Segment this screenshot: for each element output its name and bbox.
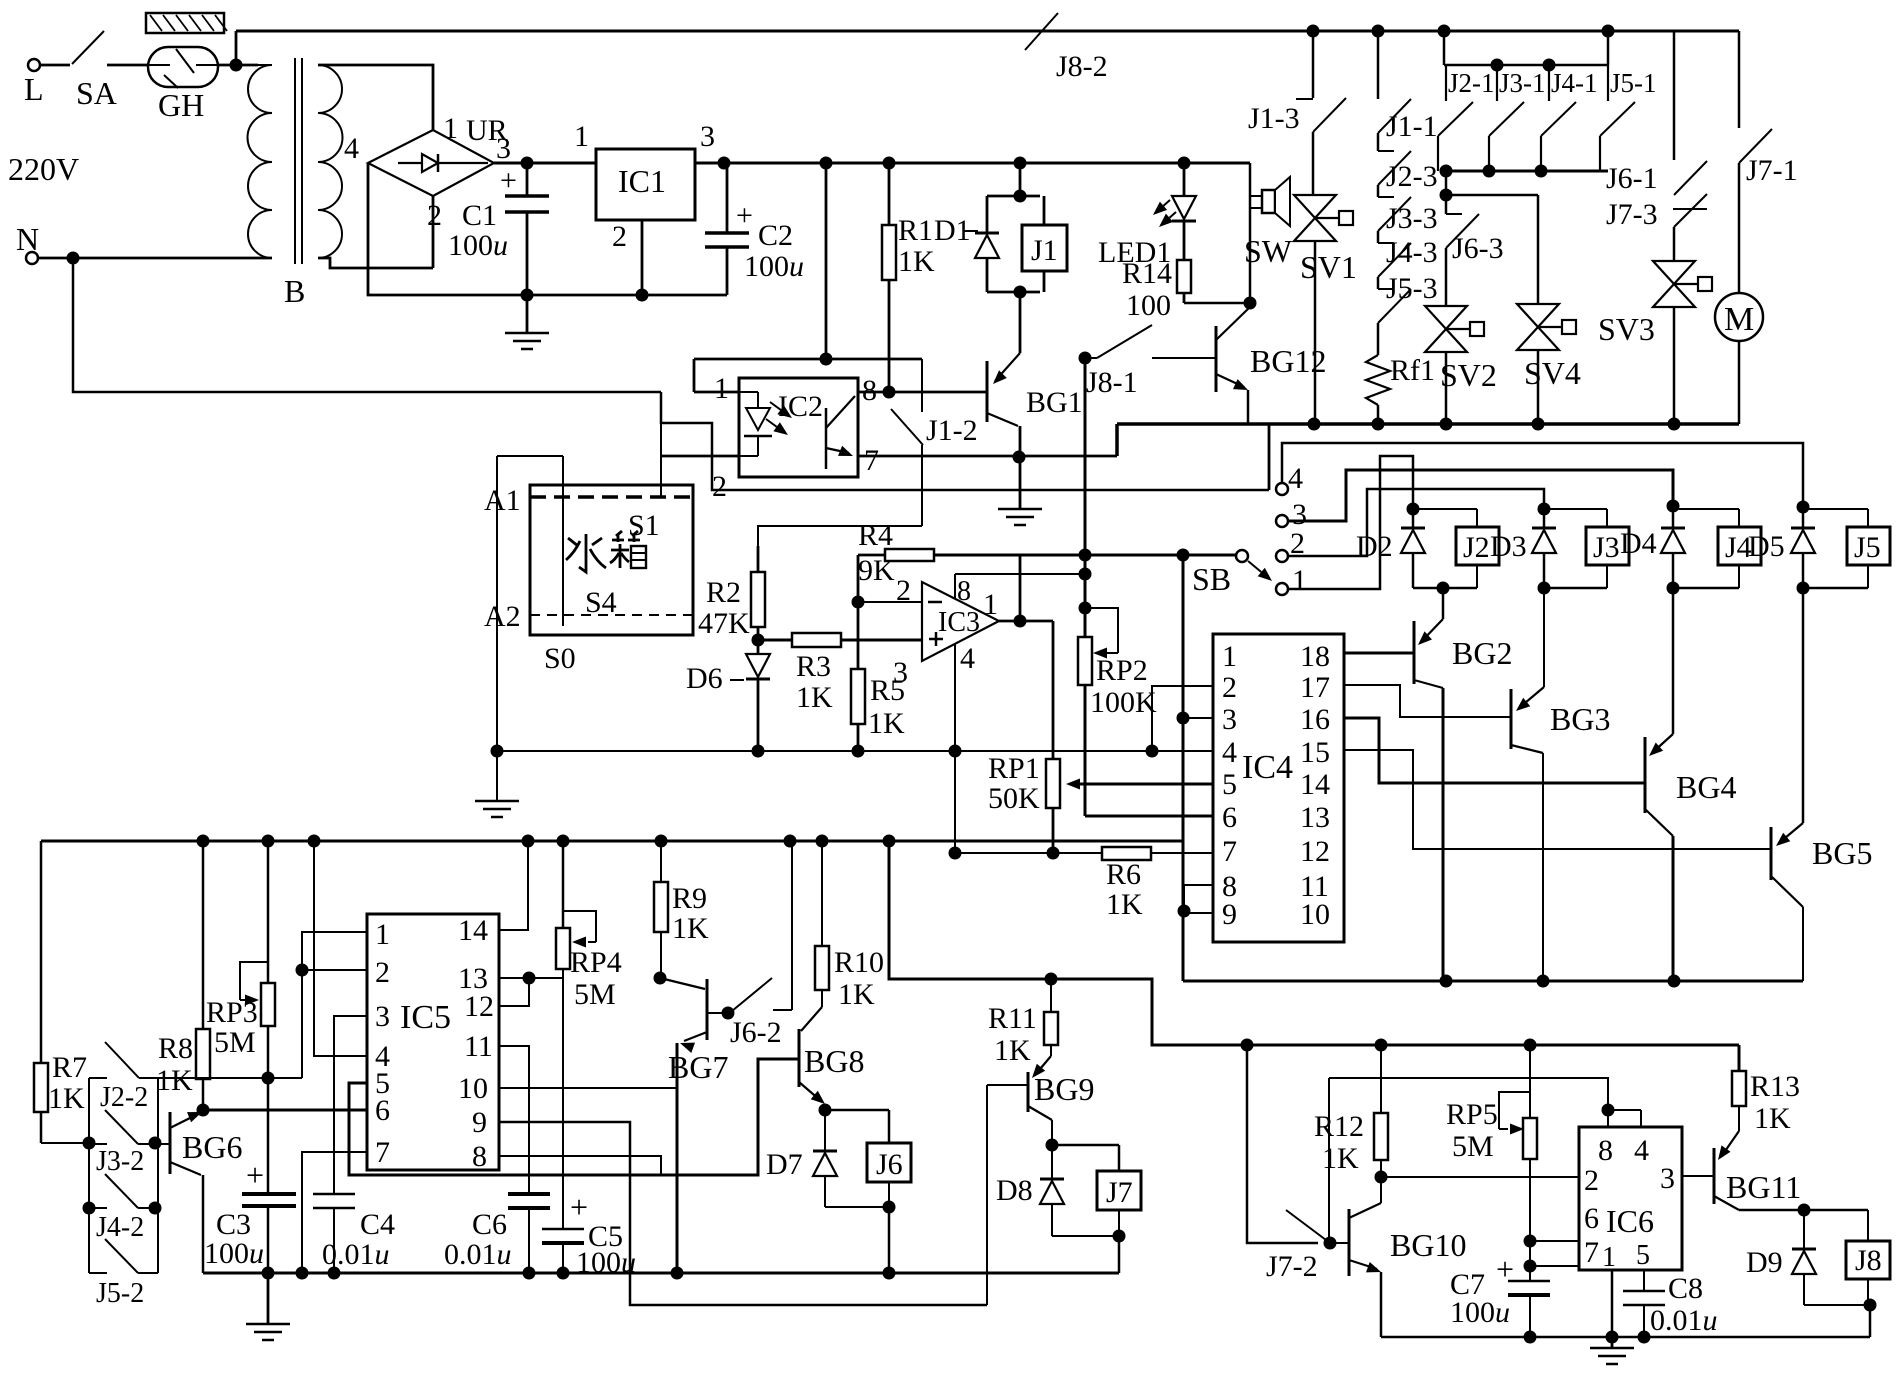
diode D2 relay J2 cell <box>1412 506 1415 528</box>
node IC5 pin4 rail <box>308 835 321 848</box>
main +V rail <box>695 162 1250 165</box>
svg-text:8: 8 <box>957 576 971 607</box>
ground below BG1 <box>1019 457 1022 509</box>
transistor BG11 <box>1738 1106 1740 1131</box>
relay contact J7-1 <box>1738 31 1741 128</box>
terminal N <box>26 252 38 264</box>
SB contact 3 <box>1276 515 1288 527</box>
svg-text:1K: 1K <box>1322 1142 1359 1175</box>
svg-text:SB: SB <box>1192 561 1231 597</box>
svg-text:IC6: IC6 <box>1606 1203 1654 1239</box>
node IC3 output <box>1014 615 1027 628</box>
diode D9 <box>1803 1210 1805 1249</box>
svg-text:7: 7 <box>864 444 879 477</box>
svg-text:SV1: SV1 <box>1300 249 1357 285</box>
diode D7 <box>824 1110 826 1151</box>
optocoupler IC2 box <box>739 378 858 477</box>
node R11 top <box>1045 973 1058 986</box>
svg-text:J3-1: J3-1 <box>1499 68 1546 98</box>
svg-text:+: + <box>570 1189 588 1225</box>
svg-text:J7-1: J7-1 <box>1746 154 1798 187</box>
node IC6 pin6 node <box>1524 1235 1537 1248</box>
svg-text:1K: 1K <box>898 245 935 278</box>
svg-text:J1-2: J1-2 <box>926 414 978 447</box>
svg-text:9K: 9K <box>858 554 895 587</box>
svg-text:2: 2 <box>612 220 627 253</box>
svg-text:4: 4 <box>960 642 975 675</box>
wire IC2 pin2 S1 <box>661 455 739 458</box>
resistor R8 <box>202 841 205 1029</box>
svg-text:1: 1 <box>375 918 390 951</box>
wire BG9 to J7 <box>1052 1144 1119 1147</box>
node C8 bottom <box>1638 1331 1651 1344</box>
relay contact J4-3 <box>1377 231 1380 243</box>
svg-text:4: 4 <box>1634 1134 1649 1167</box>
svg-text:R14: R14 <box>1122 257 1172 290</box>
svg-text:100u: 100u <box>204 1237 264 1270</box>
wire IC3 pin4 <box>954 644 956 751</box>
node BG10 base <box>1324 1237 1337 1250</box>
svg-text:J2: J2 <box>1463 531 1490 564</box>
node R8 bottom <box>197 1104 210 1117</box>
wire IC4 pin16 to BG4 <box>1344 718 1645 783</box>
svg-text:15: 15 <box>1300 736 1330 769</box>
svg-text:100u: 100u <box>576 1246 636 1279</box>
node J7-2 feed <box>1241 1039 1254 1052</box>
svg-text:J7: J7 <box>1106 1176 1133 1209</box>
relay contact J7-2 <box>1286 1210 1330 1243</box>
node R12 top <box>1375 1039 1388 1052</box>
node R2 bottom <box>752 634 765 647</box>
wire J8-2 rail <box>235 31 238 65</box>
wire IC5 pin11 C6 <box>499 1046 529 1194</box>
wire J bank top bus <box>1443 31 1446 65</box>
node C2 top <box>718 157 731 170</box>
svg-text:J6: J6 <box>876 1148 903 1181</box>
resistor R2 <box>757 546 760 640</box>
tank level A2 dashed <box>530 614 693 616</box>
node IC6 pin8 feed <box>1602 1104 1615 1117</box>
neutral rail <box>1117 422 1739 426</box>
resistor R1 <box>888 163 891 392</box>
relay contact J6-2 <box>732 978 772 1011</box>
svg-text:+: + <box>1496 1251 1514 1287</box>
node IC1 pin2 gnd <box>636 289 649 302</box>
water tank box <box>530 485 693 635</box>
node R feed rail <box>883 835 896 848</box>
svg-text:R4: R4 <box>858 519 893 552</box>
resistor R3 <box>758 639 922 642</box>
wire IC6 pin8-4 <box>1608 1109 1641 1111</box>
svg-text:100u: 100u <box>1450 1296 1510 1329</box>
wire S0 S4 electrode <box>497 455 563 457</box>
node SV3 bottom <box>1668 418 1681 431</box>
SB contact 4 <box>1276 483 1288 495</box>
switch SA <box>40 64 70 67</box>
wire IC4 pin2 <box>1152 686 1213 751</box>
svg-text:Rf1: Rf1 <box>1390 354 1435 387</box>
wire BG9 base <box>986 1085 988 1305</box>
svg-text:3: 3 <box>1660 1162 1675 1195</box>
node C1 top <box>521 157 534 170</box>
node D2 top <box>1407 503 1420 516</box>
svg-text:3: 3 <box>496 132 511 165</box>
svg-text:1K: 1K <box>994 1034 1031 1067</box>
ground below tank <box>475 800 519 803</box>
svg-text:J1-3: J1-3 <box>1248 102 1300 135</box>
relay contact J3-2 <box>89 1143 107 1145</box>
relay contact J7-3 <box>1673 208 1707 210</box>
node pin8 line <box>1079 568 1092 581</box>
node SV2 bottom <box>1440 418 1453 431</box>
wire J6 to gnd rail <box>888 1207 891 1273</box>
svg-text:5: 5 <box>1222 768 1237 801</box>
svg-text:L: L <box>24 71 44 107</box>
relay coil J7 <box>1097 1171 1141 1210</box>
IC6 box <box>1579 1127 1682 1270</box>
svg-text:1: 1 <box>1602 1242 1616 1273</box>
resistor R5 <box>857 602 860 751</box>
relay coil J8 <box>1867 1210 1869 1241</box>
svg-text:6: 6 <box>375 1094 390 1127</box>
svg-text:J2-3: J2-3 <box>1386 160 1438 193</box>
relay contact J4-2 <box>89 1207 107 1209</box>
svg-text:1: 1 <box>1292 564 1307 597</box>
svg-text:13: 13 <box>1300 801 1330 834</box>
SB contact 1 <box>1276 583 1288 595</box>
diode D6 <box>757 640 760 654</box>
svg-text:12: 12 <box>1300 835 1330 868</box>
svg-text:R7: R7 <box>52 1051 87 1084</box>
wire N <box>38 257 272 260</box>
svg-text:3: 3 <box>1222 703 1237 736</box>
node C4 bottom <box>328 1267 341 1280</box>
svg-text:7: 7 <box>1584 1236 1599 1269</box>
node J bank rail right <box>1602 25 1615 38</box>
node BG4 collector bus <box>1668 975 1681 988</box>
IC4 box <box>1213 634 1344 942</box>
node D9 top <box>1798 1204 1811 1217</box>
node gnd bus tank <box>491 745 504 758</box>
wire IC2 pin8 to BG1 base <box>858 391 889 394</box>
relay contact J6-1 <box>1673 31 1676 160</box>
svg-text:S4: S4 <box>585 586 617 619</box>
wire IC5 pin3 C4 <box>334 1016 367 1194</box>
wire secondary bottom to bridge <box>318 258 433 268</box>
transistor BG5 <box>1802 588 1805 823</box>
svg-text:3: 3 <box>893 656 908 689</box>
svg-text:1K: 1K <box>796 681 833 714</box>
svg-text:BG6: BG6 <box>182 1129 242 1165</box>
svg-text:R6: R6 <box>1106 858 1141 891</box>
wire BG11 collector <box>1739 1209 1868 1212</box>
svg-text:4: 4 <box>1288 462 1303 495</box>
node J3-2 right <box>149 1137 162 1150</box>
wire SB4 to D5 <box>1282 443 1803 507</box>
svg-text:9: 9 <box>472 1106 487 1139</box>
diode D4 relay J4 cell <box>1672 506 1675 528</box>
IC6 ground rail <box>1381 1336 1870 1339</box>
svg-text:J5: J5 <box>1854 531 1881 564</box>
node cell3 bottom <box>1538 582 1551 595</box>
node IC4 pin2-4 <box>1146 745 1159 758</box>
gnd link line <box>955 852 1102 854</box>
svg-text:14: 14 <box>458 914 488 947</box>
resistor R6 <box>1102 847 1151 860</box>
node J4-1 bottom <box>1535 165 1548 178</box>
relay contact J8-1 <box>1079 352 1092 365</box>
node RP1 bottom <box>1047 847 1060 860</box>
svg-text:1K: 1K <box>1106 888 1143 921</box>
svg-text:N: N <box>16 221 39 257</box>
svg-text:0.01u: 0.01u <box>1650 1304 1718 1337</box>
svg-text:M: M <box>1724 301 1754 338</box>
wire N riser <box>1268 424 1271 490</box>
wire IC6 vcc line <box>1329 1078 1608 1110</box>
wire IC6 pin2 <box>1381 1176 1579 1178</box>
svg-text:SV2: SV2 <box>1440 357 1497 393</box>
svg-text:0.01u: 0.01u <box>322 1238 390 1271</box>
node IC5 pin7 gnd <box>296 1267 309 1280</box>
node D3 top <box>1538 503 1551 516</box>
svg-text:IC3: IC3 <box>938 607 980 638</box>
wire GH to transformer <box>218 64 258 67</box>
resistor R12 <box>1380 1045 1382 1113</box>
svg-text:100: 100 <box>1126 289 1171 322</box>
svg-text:C8: C8 <box>1668 1272 1703 1305</box>
wire D1 J1 top <box>1019 163 1022 196</box>
wire IC5 pin14 <box>499 841 528 930</box>
svg-text:2: 2 <box>1584 1164 1599 1197</box>
svg-text:1K: 1K <box>48 1082 85 1115</box>
node RP2 wiper <box>1079 602 1092 615</box>
wire IC5 pin1 <box>302 932 367 1078</box>
svg-text:5: 5 <box>1636 1240 1650 1271</box>
svg-text:J2-1: J2-1 <box>1448 68 1495 98</box>
svg-text:1: 1 <box>574 120 589 153</box>
relay contact J6-3 <box>1446 213 1462 215</box>
node J6-2 rail <box>784 835 797 848</box>
speaker SW <box>1249 163 1252 303</box>
node R5 top <box>852 596 865 609</box>
svg-text:2: 2 <box>427 199 442 232</box>
transistor BG12 <box>1152 357 1216 359</box>
optocoupler IC2 light arrows <box>770 402 781 410</box>
svg-text:BG5: BG5 <box>1812 835 1872 871</box>
svg-text:IC5: IC5 <box>400 999 451 1036</box>
svg-text:D8: D8 <box>996 1174 1033 1207</box>
potentiometer RP1 <box>1052 621 1055 759</box>
node D1 J1 top rail <box>1014 157 1027 170</box>
capacitor C5 <box>542 1228 584 1231</box>
node Rf1 bottom <box>1372 418 1385 431</box>
svg-text:SV3: SV3 <box>1598 311 1655 347</box>
svg-text:RP3: RP3 <box>206 996 258 1029</box>
potentiometer RP5 <box>1529 1045 1531 1118</box>
svg-text:IC1: IC1 <box>618 163 666 199</box>
resistor R4 <box>857 555 860 602</box>
node N <box>67 252 80 265</box>
heater element hatched box <box>146 13 224 33</box>
svg-text:R2: R2 <box>706 576 741 609</box>
node IC4 pin3 <box>1177 712 1190 725</box>
svg-text:BG3: BG3 <box>1550 701 1610 737</box>
wire IC6 pin5 C8 <box>1643 1270 1645 1291</box>
resistor R13 <box>1738 1045 1741 1071</box>
node RP3 bottom <box>262 1072 275 1085</box>
svg-text:D6: D6 <box>686 662 723 695</box>
capacitor C4 <box>313 1193 355 1196</box>
wire D1 J1 bottom <box>987 291 1040 294</box>
svg-text:+: + <box>246 1157 264 1193</box>
svg-text:R8: R8 <box>158 1032 193 1065</box>
long +V bus <box>41 840 1184 843</box>
motor M <box>1738 163 1741 293</box>
relay contact J2-1 <box>1445 65 1447 101</box>
wire IC5 pin6 <box>203 1109 367 1112</box>
relay coil J1 <box>1043 196 1046 225</box>
svg-text:100u: 100u <box>448 229 508 262</box>
wire IC5 pin12 <box>499 978 529 1006</box>
node RP5 top <box>1524 1039 1537 1052</box>
svg-text:100K: 100K <box>1090 686 1157 719</box>
svg-text:1K: 1K <box>672 912 709 945</box>
SB select line <box>1085 554 1236 557</box>
wire IC3 minus input <box>858 601 922 603</box>
optocoupler IC2 phototransistor <box>825 408 828 469</box>
wire bridge 3 to IC1 <box>494 162 596 165</box>
node BG12 collector <box>1244 297 1257 310</box>
node R4 line <box>1079 549 1092 562</box>
ground below IC6 <box>1611 1337 1614 1348</box>
svg-text:8: 8 <box>472 1140 487 1173</box>
transistor BG2 <box>1442 588 1445 619</box>
svg-text:0.01u: 0.01u <box>444 1238 512 1271</box>
node cell4 bottom <box>1667 582 1680 595</box>
svg-text:6: 6 <box>1584 1202 1599 1235</box>
node J3-1 top <box>1491 59 1504 72</box>
relay contact J4-1 <box>1548 65 1550 101</box>
node J1-3 rail <box>1307 25 1320 38</box>
LED LED1 <box>1183 163 1186 196</box>
node D4 top <box>1667 500 1680 513</box>
svg-text:J8: J8 <box>1855 1244 1882 1277</box>
wire J7-2 feed <box>1247 1045 1318 1243</box>
svg-text:SV4: SV4 <box>1524 355 1581 391</box>
svg-text:J3-3: J3-3 <box>1386 202 1438 235</box>
svg-text:J4-1: J4-1 <box>1551 68 1598 98</box>
wire IC4 pin8 <box>1184 885 1213 913</box>
resistor R11 <box>1050 979 1052 1056</box>
svg-text:J5-2: J5-2 <box>96 1278 144 1309</box>
svg-text:J7-3: J7-3 <box>1606 198 1658 231</box>
node IC2 feed rail <box>820 157 833 170</box>
svg-text:7: 7 <box>375 1136 390 1169</box>
wire IC4 pin18 to BG2 <box>1344 652 1414 655</box>
potentiometer RP2 <box>1078 637 1092 685</box>
label tank chinese <box>566 531 646 572</box>
capacitor C8 <box>1623 1290 1665 1293</box>
svg-text:J1: J1 <box>1031 234 1058 267</box>
svg-text:8: 8 <box>1598 1134 1613 1167</box>
node Rf1 rail <box>1372 25 1385 38</box>
svg-text:+: + <box>736 199 753 232</box>
wire secondary top to bridge <box>318 65 433 130</box>
svg-text:SA: SA <box>76 75 117 111</box>
node SB line x1183 <box>1177 549 1190 562</box>
wire IC2 top feed <box>825 163 828 359</box>
wire IC3 output <box>999 620 1053 623</box>
wire SB pin3 pin9 vertical <box>1182 555 1185 981</box>
resistor R9 <box>660 841 662 978</box>
node BG2 collector bus <box>1440 975 1453 988</box>
svg-text:2: 2 <box>1222 671 1237 704</box>
svg-text:9: 9 <box>1222 898 1237 931</box>
transistor BG10 <box>1348 1209 1351 1276</box>
resistor Rf1 zigzag <box>1377 323 1380 355</box>
svg-text:1: 1 <box>714 372 729 405</box>
svg-text:R9: R9 <box>672 882 707 915</box>
svg-text:1K: 1K <box>156 1064 193 1097</box>
svg-text:10: 10 <box>458 1072 488 1105</box>
transistor BG1 <box>1019 292 1022 353</box>
capacitor C1 <box>526 163 529 196</box>
node IC2 feed corner <box>820 353 833 366</box>
svg-text:4: 4 <box>344 132 359 165</box>
svg-text:50K: 50K <box>988 782 1040 815</box>
ground below rail <box>267 1273 270 1324</box>
svg-text:J1-1: J1-1 <box>1386 110 1438 143</box>
wiper RP1 <box>1079 783 1213 786</box>
node BG7 emitter gnd <box>671 1267 684 1280</box>
wire J8-1 RP2 vertical <box>1084 358 1087 637</box>
svg-text:A2: A2 <box>484 600 521 633</box>
svg-text:BG2: BG2 <box>1452 635 1512 671</box>
svg-text:D5: D5 <box>1748 530 1785 563</box>
analog ground bus <box>497 750 1213 752</box>
wire N branch down <box>73 258 661 392</box>
svg-text:10: 10 <box>1300 898 1330 931</box>
node BG7 base <box>722 1007 735 1020</box>
svg-text:D3: D3 <box>1490 530 1527 563</box>
potentiometer RP4 <box>562 841 565 928</box>
node D6 bottom <box>752 745 765 758</box>
svg-text:GH: GH <box>158 87 204 123</box>
relay contact J1-3 <box>1312 31 1315 98</box>
svg-text:1K: 1K <box>868 707 905 740</box>
solenoid valve SV1 <box>1312 132 1315 196</box>
node J6 bottom <box>883 1201 896 1214</box>
wire J bank bottom bus <box>1446 170 1608 173</box>
svg-text:4: 4 <box>1222 736 1237 769</box>
svg-text:J6-1: J6-1 <box>1606 162 1658 195</box>
svg-text:47K: 47K <box>698 607 750 640</box>
svg-text:18: 18 <box>1300 640 1330 673</box>
bridge rectifier UR <box>368 130 494 196</box>
solenoid valve SV2 <box>1445 248 1448 307</box>
svg-text:220V: 220V <box>8 151 79 187</box>
relay contact J5-2 <box>89 1272 107 1274</box>
transistor BG8 <box>801 1007 822 1031</box>
wire +V feed <box>889 841 1739 1045</box>
svg-text:RP1: RP1 <box>988 752 1040 785</box>
wire bridge 2 drop <box>432 196 435 268</box>
node J4-2 left <box>83 1202 96 1215</box>
svg-text:16: 16 <box>1300 703 1330 736</box>
svg-text:C1: C1 <box>462 199 497 232</box>
node R1 bottom <box>883 386 896 399</box>
svg-text:D4: D4 <box>1620 527 1657 560</box>
